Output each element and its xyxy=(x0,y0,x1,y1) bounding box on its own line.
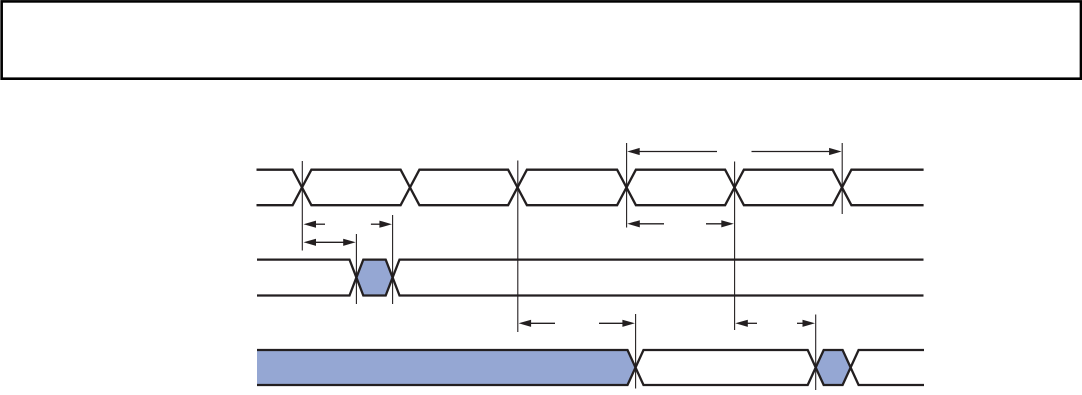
dimension arrow: clock period right half (points right) xyxy=(752,151,832,153)
reference line at fifth row-1 transition xyxy=(734,162,736,331)
empty header box xyxy=(2,1,1081,78)
reference line at row-2 hexagon right edge xyxy=(392,215,394,304)
dimension arrow: access time left (points left at x=518) xyxy=(529,322,555,324)
signal row 1: bus waveform with six transitions xyxy=(257,170,924,206)
reference line at third row-1 transition xyxy=(517,161,519,333)
dimension arrow: hold right (points right at x=815) xyxy=(797,322,805,324)
dimension arrow: pulse width left (points left at x=626) xyxy=(638,223,664,225)
dimension arrow: access time right (points right at x=635) xyxy=(599,322,624,324)
reference line at first row-1 transition xyxy=(301,161,303,251)
signal row 3: bus waveform lines xyxy=(257,350,924,385)
dimension arrow: clock period left half (points left) xyxy=(638,151,717,153)
dimension arrow: hold left (points left at x=735) xyxy=(746,322,757,324)
dimension arrow: setup right (points right at x=392) xyxy=(371,223,382,225)
reference line at sixth row-1 transition xyxy=(841,143,843,214)
reference line at row-3 first transition xyxy=(635,314,637,389)
signal row 2: data valid hexagon (blue) xyxy=(356,260,392,296)
dimension arrow: double-headed between x=302 and x=356 xyxy=(313,241,346,243)
signal row 2: bus waveform lines xyxy=(257,260,924,296)
signal row 3: second blue data hexagon xyxy=(816,350,851,385)
signal row 3: long blue data region xyxy=(257,350,636,385)
dimension arrow: setup left (points left at x=302) xyxy=(314,223,325,225)
reference line at fourth row-1 transition xyxy=(626,143,628,228)
reference line at row-3 second transition xyxy=(815,315,817,391)
dimension arrow: pulse width right (points right at x=734) xyxy=(706,223,723,225)
reference line at row-2 hexagon left edge xyxy=(355,234,357,304)
